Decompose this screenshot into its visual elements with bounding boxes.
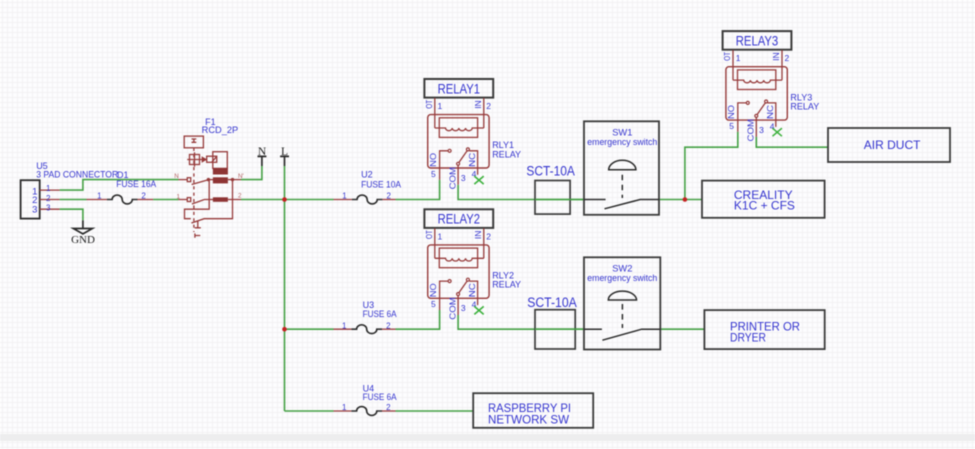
RCD trip latch box with diagonal — [207, 156, 217, 162]
relay RLY1 coil box — [439, 118, 477, 138]
wire RCD pin2 to node L — [241, 199, 285, 201]
svg-text:RELAY: RELAY — [492, 280, 521, 290]
svg-text:FUSE 10A: FUSE 10A — [361, 179, 401, 189]
svg-text:3 PAD CONNECTOR: 3 PAD CONNECTOR — [36, 169, 118, 179]
relay RLY3 NO contact and pin 5 lead — [738, 103, 747, 132]
fuse U3 body — [351, 325, 382, 334]
RCD junction dot N right — [231, 178, 234, 181]
load box AIR DUCT — [828, 128, 950, 162]
RCD trip actuator symbol — [195, 233, 200, 237]
svg-text:3: 3 — [46, 204, 51, 213]
relay RLY3 COM contact and pin 3 lead — [755, 114, 758, 117]
svg-text:NC: NC — [467, 153, 477, 167]
current sensor SCT-10A box 2 — [535, 310, 575, 349]
relay RLY2 pin IN lead — [483, 228, 485, 258]
relay RLY2 COM contact and pin 3 lead — [457, 293, 460, 296]
wire SW1 out to junction node — [659, 199, 702, 201]
wire relay2 COM pin3 to SCT-10A 2 and SW2 — [458, 315, 584, 329]
fuse U4 pin2 lead — [382, 410, 396, 412]
RCD trip linkage left — [185, 180, 210, 219]
svg-text:OT: OT — [424, 100, 434, 109]
svg-text:L: L — [281, 146, 288, 158]
relay RLY3 NC contact and pin 4 lead — [768, 103, 776, 127]
relay RLY2 switch blade — [459, 281, 467, 293]
fuse U3 pin2 lead — [382, 328, 396, 330]
RCD sense coil rectangle — [213, 152, 228, 169]
svg-text:5: 5 — [431, 299, 436, 309]
relay RLY2 NO contact and pin 5 lead — [440, 281, 449, 310]
svg-text:DRYER: DRYER — [730, 331, 766, 345]
svg-text:FUSE 6A: FUSE 6A — [363, 392, 397, 402]
wire relay3 COM pin3 to AIR DUCT — [756, 137, 828, 147]
RCD L pole input pin — [179, 199, 188, 201]
RCD arrow to trip coil — [202, 159, 207, 161]
svg-text:U2: U2 — [361, 170, 373, 180]
svg-text:3: 3 — [759, 125, 764, 135]
RCD test button box — [184, 136, 203, 148]
relay RLY3 pin IN lead — [781, 50, 783, 80]
ground symbol stem — [82, 220, 84, 228]
relay RLY1 COM contact and pin 3 lead — [457, 162, 460, 165]
relay RELAY2 label box — [424, 209, 493, 228]
svg-text:2: 2 — [46, 194, 51, 203]
fuse U4 pin1 lead — [334, 410, 352, 412]
RCD trip blade bottom — [191, 180, 232, 223]
relay RLY3 coil box — [738, 70, 776, 90]
RCD N pole wire through core — [208, 179, 213, 181]
svg-text:OT: OT — [722, 52, 732, 61]
SW2 contact — [584, 329, 660, 340]
svg-text:COM: COM — [448, 297, 458, 320]
RCD core bar 2 — [213, 177, 228, 183]
svg-text:2: 2 — [141, 192, 146, 201]
connector U5 pin 2 stub — [40, 199, 60, 201]
relay RLY1 coil winding — [435, 128, 484, 131]
fuse U3 pin1 lead — [334, 328, 352, 330]
svg-text:N: N — [174, 173, 179, 180]
load box RASPBERRY PI NETWORK SW — [473, 393, 593, 428]
relay RLY2 pin OT lead — [434, 228, 436, 258]
ground symbol triangle — [73, 229, 92, 234]
relay RLY1 pin OT lead — [434, 98, 436, 128]
relay RLY3 pin OT lead — [732, 50, 734, 80]
RCD L pole wire through core — [204, 199, 213, 201]
relay RLY2 pin 4 no-connect cross — [474, 306, 483, 314]
svg-text:2: 2 — [486, 231, 491, 241]
svg-text:COM: COM — [448, 167, 458, 190]
RCD N pole contact square — [187, 178, 190, 182]
svg-text:FUSE 16A: FUSE 16A — [116, 179, 156, 189]
svg-text:1: 1 — [46, 184, 51, 193]
RCD core bar 3 — [213, 197, 228, 202]
svg-text:1: 1 — [177, 194, 181, 201]
fuse U2 pin2 lead — [382, 199, 395, 201]
relay RLY3 body outline — [726, 67, 787, 120]
svg-text:RELAY2: RELAY2 — [438, 211, 481, 227]
wire fuse U4 to RASPBERRY box — [396, 410, 474, 412]
svg-text:OT: OT — [424, 230, 434, 239]
svg-text:COM: COM — [746, 119, 756, 142]
SW2 mushroom button dome — [608, 291, 636, 300]
RCD trip T symbol — [195, 221, 201, 228]
svg-text:FUSE 6A: FUSE 6A — [363, 309, 397, 319]
relay RLY1 pin 4 no-connect cross — [474, 176, 483, 184]
current sensor SCT-10A box 1 — [535, 181, 570, 215]
relay RLY2 coil winding — [435, 258, 484, 261]
RCD core bar 1 — [213, 168, 228, 174]
junction node L row1 — [282, 197, 287, 202]
svg-text:3: 3 — [461, 303, 466, 313]
wire U5 pin2 to fuse D1 — [60, 199, 87, 201]
svg-text:N: N — [258, 146, 267, 158]
svg-text:emergency switch: emergency switch — [587, 137, 657, 147]
wire fuse U2 to relay1 NO pin5 — [396, 180, 440, 200]
wire fuse U3 to relay2 NO pin5 — [396, 310, 440, 329]
svg-text:1: 1 — [438, 101, 443, 111]
svg-text:RELAY1: RELAY1 — [438, 80, 481, 96]
wire relay1 COM pin3 to SCT-10A and SW1 — [458, 185, 584, 200]
fuse D1 body — [107, 195, 138, 204]
relay RLY1 pin IN lead — [483, 98, 485, 128]
SW1 mushroom button dome — [609, 160, 636, 170]
relay RLY1 body outline — [428, 115, 489, 168]
wire junction up to relay3 NO pin5 — [685, 132, 738, 200]
wire through SCT1 — [535, 199, 584, 201]
svg-text:RELAY: RELAY — [790, 102, 819, 112]
fuse D1 pin1 lead — [87, 199, 107, 201]
svg-text:5: 5 — [431, 169, 436, 179]
svg-text:AIR DUCT: AIR DUCT — [864, 138, 921, 152]
supply symbol N — [258, 156, 267, 166]
relay RLY2 coil box — [439, 248, 477, 268]
connector U5 pin 3 stub — [40, 208, 60, 210]
wire row1 L to fuse U2 — [285, 199, 334, 201]
svg-text:3: 3 — [32, 205, 37, 216]
svg-text:NO: NO — [726, 105, 736, 119]
connector U5 pin 1 stub — [40, 189, 60, 191]
relay RELAY3 label box — [723, 31, 792, 50]
RCD junction dot N left — [207, 178, 210, 181]
emergency switch SW2 box — [584, 257, 660, 349]
svg-text:SCT-10A: SCT-10A — [527, 295, 577, 310]
RCD test contact square with cross — [190, 155, 200, 165]
svg-text:1: 1 — [438, 231, 443, 241]
SW1 actuator stem dashed — [621, 175, 623, 198]
svg-text:2: 2 — [386, 321, 391, 330]
wire L supply vertical bus — [284, 166, 286, 411]
junction node SW1 out / relay3 / creality — [683, 197, 688, 202]
load box CREALITY K1C + CFS — [702, 181, 825, 218]
svg-text:IN: IN — [473, 100, 483, 109]
svg-text:5: 5 — [729, 121, 734, 131]
junction node row2 — [282, 327, 287, 332]
svg-text:1: 1 — [342, 321, 347, 330]
relay RLY2 body outline — [428, 245, 489, 298]
svg-text:3: 3 — [461, 173, 466, 183]
relay RLY3 switch blade — [757, 103, 765, 115]
svg-text:NO: NO — [428, 152, 438, 166]
wire U5 pin3 to GND — [60, 209, 83, 220]
svg-text:IN: IN — [473, 231, 483, 240]
connector U5 body — [21, 180, 40, 218]
RCD N pole input pin — [179, 179, 188, 181]
svg-text:NC: NC — [467, 283, 477, 297]
fuse D1 pin2 lead — [138, 199, 154, 201]
fuse U2 pin1 lead — [334, 199, 352, 201]
svg-text:2: 2 — [386, 192, 391, 201]
SW1 contact — [584, 200, 659, 209]
relay RLY3 pin 4 no-connect cross — [773, 128, 782, 136]
RCD dashed trip linkage line — [193, 148, 195, 232]
svg-text:1: 1 — [342, 192, 347, 201]
relay RLY3 coil winding — [733, 80, 782, 83]
supply symbol L — [280, 156, 289, 166]
svg-text:2: 2 — [486, 101, 491, 111]
svg-text:GND: GND — [71, 234, 95, 246]
fuse U2 body — [352, 195, 383, 204]
svg-text:1: 1 — [97, 192, 102, 201]
svg-text:NO: NO — [428, 283, 438, 297]
svg-text:2: 2 — [785, 53, 790, 63]
svg-text:IN: IN — [771, 52, 781, 61]
svg-text:NC: NC — [765, 105, 775, 119]
wire RCD N' to N supply — [241, 166, 262, 180]
relay RLY2 NC contact and pin 4 lead — [469, 281, 477, 305]
relay RLY1 NO contact and pin 5 lead — [440, 151, 449, 180]
wire row2 L bus to fuse U3 — [285, 328, 334, 330]
relay RLY1 NC contact and pin 4 lead — [469, 151, 477, 175]
svg-text:SW1: SW1 — [612, 128, 632, 138]
wire row3 to fuse U4 — [285, 410, 334, 412]
svg-text:emergency switch: emergency switch — [587, 273, 657, 283]
fuse U4 body — [351, 407, 382, 416]
svg-text:K1C + CFS: K1C + CFS — [734, 199, 795, 213]
svg-text:1: 1 — [342, 403, 347, 412]
RCD L pole switch blade — [192, 200, 204, 204]
wire SW2 out to PRINTER box — [660, 328, 704, 330]
svg-text:RELAY3: RELAY3 — [736, 33, 779, 49]
svg-text:N': N' — [238, 173, 244, 180]
wire U5 pin1 to RCD N input — [60, 180, 179, 191]
svg-text:2: 2 — [386, 403, 391, 412]
load box PRINTER OR DRYER — [704, 310, 824, 349]
RCD L pole contact square — [187, 198, 190, 202]
wire fuse D1 to RCD pin1 — [153, 199, 178, 201]
relay RELAY1 label box — [424, 79, 493, 98]
svg-text:2: 2 — [238, 193, 242, 200]
svg-text:NETWORK SW: NETWORK SW — [488, 412, 570, 426]
svg-text:RCD_2P: RCD_2P — [202, 125, 239, 135]
SW2 actuator stem dashed — [621, 304, 623, 328]
svg-text:SCT-10A: SCT-10A — [526, 164, 575, 179]
svg-text:RELAY: RELAY — [492, 149, 521, 159]
RCD test button glyph — [192, 139, 197, 142]
relay RLY1 switch blade — [459, 151, 467, 163]
wire through SCT2 — [535, 328, 584, 330]
emergency switch SW1 box — [584, 121, 659, 215]
RCD N pole switch blade — [192, 180, 208, 185]
svg-text:1: 1 — [736, 53, 741, 63]
